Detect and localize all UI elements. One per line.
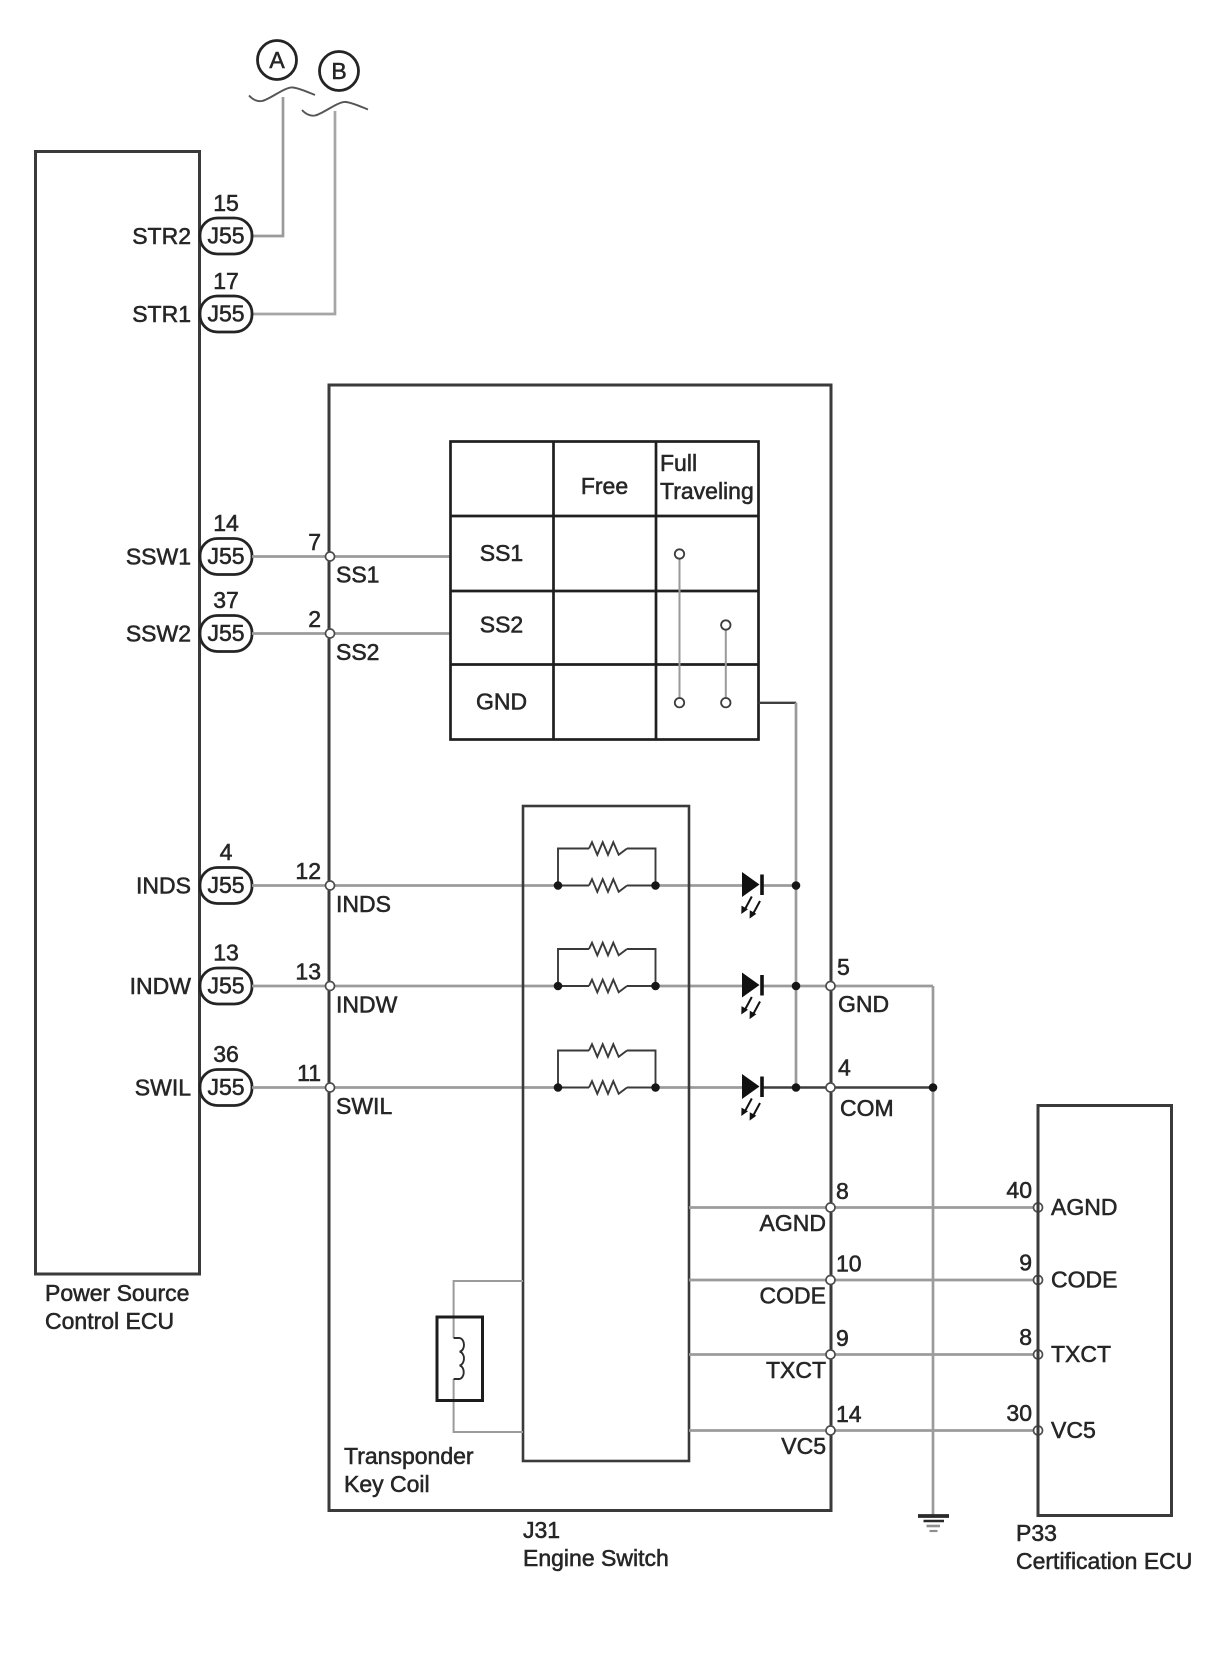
- wire SSW1 to SS1 pin and table: [252, 555, 451, 558]
- svg-text:SWIL: SWIL: [135, 1075, 191, 1101]
- svg-text:Key Coil: Key Coil: [344, 1471, 430, 1497]
- junction dots INDS row: [554, 881, 660, 890]
- connector J55 STR1 pin 17: [132, 268, 252, 332]
- J31 pin 14 VC5: [781, 1401, 862, 1459]
- connector J55 INDS pin 4: [136, 839, 252, 904]
- svg-text:13: 13: [213, 940, 239, 966]
- svg-text:37: 37: [213, 587, 239, 613]
- wire VC5 net: [689, 1429, 1038, 1432]
- svg-text:9: 9: [836, 1325, 849, 1351]
- svg-text:A: A: [269, 47, 285, 73]
- svg-text:GND: GND: [476, 689, 527, 715]
- coil L1 windings: [454, 1338, 464, 1379]
- svg-text:SS2: SS2: [336, 639, 379, 665]
- wire AGND net: [689, 1206, 1038, 1209]
- contact circle GND a: [675, 698, 684, 707]
- junction dots common cathode line: [792, 881, 801, 1092]
- connector J55 SSW1 pin 14: [126, 510, 252, 575]
- svg-text:8: 8: [836, 1178, 849, 1204]
- svg-text:36: 36: [213, 1041, 239, 1067]
- svg-text:13: 13: [295, 959, 321, 985]
- svg-text:TXCT: TXCT: [1051, 1341, 1111, 1367]
- connector J55 SWIL pin 36: [135, 1041, 252, 1106]
- junction dots INDW row: [554, 982, 660, 991]
- table header Full Traveling: [660, 450, 754, 504]
- svg-text:SS1: SS1: [336, 562, 379, 588]
- svg-text:9: 9: [1019, 1250, 1032, 1276]
- svg-text:30: 30: [1006, 1400, 1032, 1426]
- pin 12 INDS: [295, 858, 391, 917]
- svg-text:INDS: INDS: [136, 873, 191, 899]
- ground symbol: [918, 1516, 949, 1531]
- pin 5 GND: [826, 954, 889, 1017]
- connector circle A: [258, 41, 297, 80]
- svg-text:B: B: [331, 58, 346, 84]
- LED INDW: [741, 973, 764, 1020]
- LED SWIL: [741, 1074, 764, 1121]
- engine switch inner block: [523, 806, 689, 1461]
- wire INDW row to GND pin: [252, 985, 558, 988]
- J31 pin 9 TXCT: [766, 1325, 849, 1383]
- svg-text:4: 4: [220, 839, 233, 865]
- P33 pin 9 CODE: [1019, 1250, 1117, 1293]
- pin 7 SS1: [308, 529, 379, 588]
- svg-text:P33: P33: [1016, 1520, 1057, 1546]
- wire coil top to inner block: [454, 1281, 523, 1338]
- svg-text:COM: COM: [840, 1095, 894, 1121]
- svg-text:J55: J55: [207, 301, 244, 327]
- svg-text:4: 4: [838, 1055, 851, 1081]
- pin 11 SWIL: [297, 1060, 392, 1119]
- svg-text:17: 17: [213, 268, 239, 294]
- contact circle SS1 full-traveling: [675, 549, 684, 558]
- P33 pin 30 VC5: [1006, 1400, 1095, 1443]
- svg-text:SS1: SS1: [480, 540, 523, 566]
- svg-text:12: 12: [295, 858, 321, 884]
- label J31 Engine Switch: [523, 1517, 669, 1571]
- svg-text:J31: J31: [523, 1517, 560, 1543]
- switch position table: [451, 442, 759, 740]
- contact circle SS2 full-traveling: [721, 620, 730, 629]
- svg-text:J55: J55: [207, 620, 244, 646]
- label Transponder Key Coil: [344, 1443, 474, 1497]
- transponder key coil box: [437, 1317, 483, 1401]
- connector circle B: [320, 52, 359, 91]
- svg-text:5: 5: [837, 954, 850, 980]
- J31 pin 8 AGND: [760, 1178, 849, 1236]
- svg-text:J55: J55: [207, 872, 244, 898]
- label P33 Certification ECU: [1016, 1520, 1192, 1574]
- wire TXCT net: [689, 1353, 1038, 1356]
- pin 4 COM: [826, 1055, 894, 1122]
- svg-text:SS2: SS2: [480, 612, 523, 638]
- svg-text:Certification ECU: Certification ECU: [1016, 1548, 1192, 1574]
- J31 Engine Switch box: [329, 385, 831, 1511]
- label Power Source Control ECU: [45, 1280, 189, 1334]
- J31 pin 10 CODE: [760, 1251, 862, 1309]
- svg-text:J55: J55: [207, 973, 244, 999]
- connector J55 INDW pin 13: [130, 940, 252, 1005]
- P33 pin 8 TXCT: [1019, 1324, 1111, 1367]
- resistor pair SWIL (parallel): [558, 1044, 656, 1094]
- wire GND pin to ground rail: [932, 986, 935, 1515]
- wire coil bottom to inner block: [454, 1379, 523, 1432]
- svg-text:2: 2: [308, 606, 321, 632]
- svg-text:GND: GND: [838, 991, 889, 1017]
- svg-text:7: 7: [308, 529, 321, 555]
- svg-text:10: 10: [836, 1251, 862, 1277]
- connector J55 STR2 pin 15: [132, 190, 252, 254]
- svg-text:J55: J55: [207, 543, 244, 569]
- pin 13 INDW: [295, 959, 397, 1018]
- break squiggle under A: [249, 87, 315, 101]
- svg-text:Power Source: Power Source: [45, 1280, 189, 1306]
- svg-text:INDW: INDW: [336, 992, 398, 1018]
- svg-text:STR2: STR2: [132, 223, 191, 249]
- wire STR2 to A: [252, 97, 283, 236]
- P33 pin 40 AGND: [1006, 1177, 1117, 1220]
- svg-text:STR1: STR1: [132, 301, 191, 327]
- svg-text:Engine Switch: Engine Switch: [523, 1545, 669, 1571]
- svg-text:AGND: AGND: [1051, 1194, 1117, 1220]
- svg-text:INDS: INDS: [336, 891, 391, 917]
- wire SSW2 to SS2 pin and table: [252, 632, 451, 635]
- svg-text:VC5: VC5: [1051, 1417, 1096, 1443]
- svg-text:VC5: VC5: [781, 1433, 826, 1459]
- svg-text:J55: J55: [207, 1074, 244, 1100]
- switch contact line SS1-GND: [679, 559, 681, 699]
- svg-text:11: 11: [297, 1060, 321, 1086]
- wire common cathode vertical: [795, 703, 798, 1088]
- wire SWIL row to COM pin: [252, 1086, 558, 1089]
- junction dot COM/ground rail: [929, 1083, 938, 1092]
- svg-text:Control ECU: Control ECU: [45, 1308, 174, 1334]
- svg-text:Transponder: Transponder: [344, 1443, 474, 1469]
- svg-text:14: 14: [836, 1401, 862, 1427]
- wire CODE net: [689, 1279, 1038, 1282]
- contact circle GND b: [721, 698, 730, 707]
- connector J55 SSW2 pin 37: [126, 587, 252, 652]
- svg-text:AGND: AGND: [760, 1210, 826, 1236]
- svg-text:TXCT: TXCT: [766, 1357, 826, 1383]
- svg-text:SSW2: SSW2: [126, 621, 191, 647]
- svg-text:SSW1: SSW1: [126, 544, 191, 570]
- svg-text:40: 40: [1006, 1177, 1032, 1203]
- svg-text:8: 8: [1019, 1324, 1032, 1350]
- wire STR1 to B: [252, 111, 335, 314]
- P33 Certification ECU box: [1038, 1106, 1172, 1516]
- svg-text:Full: Full: [660, 450, 697, 476]
- resistor pair INDW (parallel): [558, 943, 656, 993]
- svg-text:Traveling: Traveling: [660, 478, 754, 504]
- svg-text:14: 14: [213, 510, 239, 536]
- switch contact line SS2-GND: [725, 630, 727, 699]
- pin 2 SS2: [308, 606, 379, 665]
- svg-text:15: 15: [213, 190, 239, 216]
- LED INDS: [741, 872, 764, 919]
- resistor pair INDS (parallel): [558, 842, 656, 892]
- junction dots SWIL row: [554, 1083, 660, 1092]
- svg-text:SWIL: SWIL: [336, 1093, 392, 1119]
- svg-text:CODE: CODE: [760, 1283, 826, 1309]
- wire INDS row: [252, 884, 558, 887]
- svg-text:CODE: CODE: [1051, 1267, 1117, 1293]
- Power Source Control ECU box: [36, 152, 200, 1275]
- wire table GND to common cathode line: [759, 702, 797, 704]
- break squiggle under B: [302, 102, 368, 116]
- svg-text:INDW: INDW: [130, 973, 192, 999]
- svg-text:J55: J55: [207, 223, 244, 249]
- svg-text:Free: Free: [581, 473, 628, 499]
